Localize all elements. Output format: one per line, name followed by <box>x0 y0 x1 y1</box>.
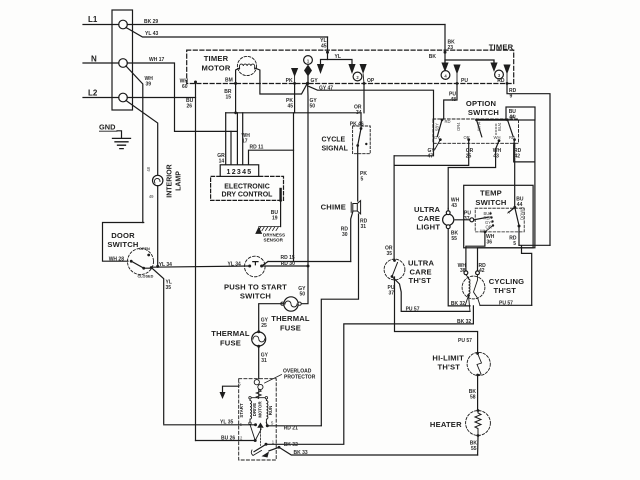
timer motor coil <box>240 64 255 69</box>
svg-text:OPTION: OPTION <box>466 99 496 108</box>
svg-text:31: 31 <box>361 224 367 230</box>
svg-text:48: 48 <box>450 97 456 103</box>
svg-text:15: 15 <box>225 95 231 101</box>
svg-text:YL 35: YL 35 <box>220 420 233 426</box>
svg-text:RD 15: RD 15 <box>281 255 295 261</box>
svg-text:YL 34: YL 34 <box>228 261 241 267</box>
svg-text:30: 30 <box>342 232 348 238</box>
svg-text:PU 57: PU 57 <box>406 307 420 313</box>
motor start winding <box>250 399 252 422</box>
svg-text:44: 44 <box>509 115 515 121</box>
wire GR14 pin1 <box>225 113 227 165</box>
contact RD triangle <box>503 65 510 75</box>
wire PK45 down <box>294 83 296 112</box>
svg-text:A: A <box>507 210 510 215</box>
svg-text:YL 34: YL 34 <box>159 262 172 268</box>
svg-text:17: 17 <box>242 139 248 145</box>
svg-text:34: 34 <box>356 110 362 116</box>
svg-text:BK 32: BK 32 <box>451 301 465 307</box>
option contact 4 <box>506 118 509 121</box>
dryness sensor <box>259 227 281 231</box>
wire branch to hi-limit <box>395 277 478 352</box>
temp blade <box>474 217 489 220</box>
svg-text:GY 47: GY 47 <box>319 85 333 91</box>
option bar link <box>477 119 508 121</box>
svg-text:SENSOR: SENSOR <box>264 238 284 243</box>
EDC dashed box <box>211 176 284 200</box>
svg-text:14: 14 <box>219 159 225 165</box>
wire GY50 down from junction <box>299 83 308 303</box>
node cluster y245 <box>519 245 550 305</box>
motor switch triangle <box>257 423 264 428</box>
wire heater bottom <box>477 437 479 455</box>
heater <box>466 411 491 436</box>
terminal L2 <box>119 93 128 102</box>
wire YL43 from L1 <box>126 28 328 38</box>
svg-text:42: 42 <box>479 268 485 274</box>
svg-text:RD 30: RD 30 <box>281 261 295 267</box>
svg-text:39: 39 <box>146 82 152 88</box>
svg-text:FUSE: FUSE <box>220 339 241 348</box>
svg-text:CARE: CARE <box>410 267 432 276</box>
svg-text:12345: 12345 <box>227 169 253 176</box>
node GY junction <box>306 82 309 85</box>
cam 4 circle <box>441 71 450 80</box>
wire GY31 down to motor <box>258 346 260 379</box>
svg-text:19: 19 <box>272 216 278 222</box>
svg-text:ELECTRONIC: ELECTRONIC <box>224 184 270 191</box>
push button symbol <box>253 262 258 265</box>
svg-text:TH'ST: TH'ST <box>409 276 432 285</box>
wire timer motor left lead BM <box>236 68 240 113</box>
svg-text:38: 38 <box>460 268 466 274</box>
svg-text:CARE: CARE <box>418 214 440 223</box>
svg-text:23: 23 <box>448 45 454 51</box>
door switch contacts <box>130 260 133 263</box>
wire bus y113 <box>226 112 361 114</box>
svg-text:DOWN: DOWN <box>520 207 525 220</box>
svg-text:47: 47 <box>428 154 434 160</box>
terminal block <box>112 10 133 110</box>
svg-text:55: 55 <box>471 446 477 452</box>
svg-text:GY: GY <box>434 135 440 140</box>
svg-text:THERMAL: THERMAL <box>211 329 250 338</box>
wire YL35 into motor pin6 <box>164 424 256 426</box>
wire YL34 to push-to-start <box>151 266 250 267</box>
svg-text:RUN: RUN <box>268 406 273 416</box>
svg-text:PU: PU <box>461 78 468 84</box>
wire BU19 sensor lead <box>279 189 281 200</box>
wire YL35 branch down to motor <box>151 268 164 424</box>
wire BU44 down to temp <box>514 143 516 207</box>
wire pin3 <box>236 113 238 165</box>
svg-text:60: 60 <box>182 84 188 90</box>
svg-text:TIMER: TIMER <box>489 43 514 52</box>
cycle signal dashed box <box>353 126 371 154</box>
svg-text:43: 43 <box>451 203 457 209</box>
wire WH39 diagonal from N <box>126 66 143 223</box>
svg-text:WH4: WH4 <box>477 121 482 131</box>
wire RD5 down <box>518 226 520 245</box>
temp switch box <box>464 185 533 248</box>
svg-text:55: 55 <box>451 236 457 242</box>
svg-text:RD: RD <box>509 135 515 140</box>
cam 2 circle <box>353 72 362 81</box>
wire BK58 <box>477 375 479 411</box>
svg-text:BK 33: BK 33 <box>294 450 308 456</box>
svg-text:ULTRA: ULTRA <box>414 205 440 214</box>
svg-text:5: 5 <box>361 177 364 183</box>
svg-text:9: 9 <box>510 94 513 100</box>
svg-text:PROTECTOR: PROTECTOR <box>284 375 316 381</box>
node OP <box>363 82 366 85</box>
svg-text:N: N <box>91 55 97 64</box>
wire L2 to lamp diagonal <box>126 101 158 176</box>
option contact 1 <box>441 118 444 121</box>
temp switch dashed box <box>475 208 524 232</box>
svg-text:L1: L1 <box>88 15 98 24</box>
svg-text:43: 43 <box>493 154 499 160</box>
svg-text:37: 37 <box>464 216 470 222</box>
wire WH17 from N <box>127 63 237 131</box>
svg-text:LIGHT: LIGHT <box>416 223 440 232</box>
ground <box>113 138 131 148</box>
svg-text:WH: WH <box>494 135 501 140</box>
wire chime bus <box>268 261 351 263</box>
timer dashed box <box>187 50 514 83</box>
svg-text:OR4: OR4 <box>456 122 461 131</box>
svg-text:42: 42 <box>515 154 521 160</box>
door switch arc <box>128 249 154 275</box>
wire BK29 drop + node <box>444 25 446 61</box>
thermal fuse right <box>284 297 298 311</box>
svg-text:35: 35 <box>166 285 172 291</box>
contact PK triangle <box>291 68 298 77</box>
svg-text:PU 57: PU 57 <box>499 301 513 307</box>
wire RD42 <box>478 140 535 271</box>
svg-text:BU 26: BU 26 <box>221 435 235 441</box>
svg-text:45: 45 <box>321 44 327 50</box>
svg-text:WH 28: WH 28 <box>109 256 125 262</box>
svg-text:5BY: 5BY <box>435 123 440 131</box>
wire PK5 down to chime <box>357 146 359 202</box>
ground arrow motor <box>223 386 239 392</box>
option contact 3 <box>498 139 501 142</box>
wire WH60 down joins BU26 <box>195 82 197 441</box>
wire GY47 diagonal from junction <box>309 86 434 156</box>
wire OR35 down to ultra care thst <box>393 156 395 261</box>
node lamp-YL34 junction <box>156 265 159 268</box>
motor run winding <box>266 399 268 422</box>
svg-text:WH 17: WH 17 <box>149 57 165 63</box>
node BK33 branch <box>278 446 281 449</box>
svg-text:SWITCH: SWITCH <box>468 108 499 117</box>
timer cam 1 circle <box>304 56 313 65</box>
cam 4 triangle <box>441 63 448 73</box>
svg-text:TH'ST: TH'ST <box>494 286 517 295</box>
ultra care light <box>443 214 454 225</box>
motor dashed box <box>239 379 277 460</box>
wire pin4 <box>242 113 244 165</box>
svg-text:SWITCH: SWITCH <box>240 292 271 301</box>
svg-text:SWITCH: SWITCH <box>107 240 138 249</box>
wire PU57 right <box>480 304 532 306</box>
wire OR34 down <box>363 83 365 112</box>
interior lamp <box>153 175 163 185</box>
svg-text:35: 35 <box>386 251 392 257</box>
wire WH36 <box>466 232 485 271</box>
node WH60 <box>194 81 197 84</box>
svg-text:45: 45 <box>287 104 293 110</box>
svg-text:CHIME: CHIME <box>321 203 346 212</box>
BU44 box <box>506 107 535 120</box>
node RD30-GY50 junction <box>307 265 310 268</box>
svg-text:BK 32: BK 32 <box>284 442 298 448</box>
cycle signal blade <box>358 129 361 146</box>
ultra care thst <box>384 259 405 280</box>
svg-text:31: 31 <box>261 358 267 364</box>
push to start switch dashed circle <box>245 256 266 277</box>
svg-text:OPEN: OPEN <box>139 247 150 251</box>
chime symbol <box>351 201 360 214</box>
wire RD9 to right side <box>507 83 550 245</box>
svg-text:YL 43: YL 43 <box>145 31 158 37</box>
svg-text:RD 21: RD 21 <box>284 425 298 431</box>
wire GY26 link fuses <box>259 304 284 332</box>
hi-limit thst <box>467 352 490 375</box>
svg-text:PK 46: PK 46 <box>350 121 364 127</box>
wire RD21 <box>267 425 321 427</box>
svg-text:48: 48 <box>146 166 151 171</box>
svg-text:BK 29: BK 29 <box>144 19 158 25</box>
svg-text:FUSE: FUSE <box>280 324 301 333</box>
svg-text:CYCLING: CYCLING <box>489 277 525 286</box>
svg-text:MOTOR: MOTOR <box>201 64 230 73</box>
wire lamp to door switch node <box>157 186 159 267</box>
motor switch blade <box>250 425 261 441</box>
svg-text:YL: YL <box>335 54 341 60</box>
wire timer motor right lead <box>255 68 307 94</box>
overload protector <box>254 380 259 385</box>
svg-text:OR: OR <box>464 135 470 140</box>
wire light down BK <box>448 209 470 306</box>
svg-text:DRY CONTROL: DRY CONTROL <box>222 191 274 198</box>
svg-text:26: 26 <box>187 104 193 110</box>
wire BK29 from L1 across top <box>127 24 445 26</box>
cycling thst <box>462 276 485 299</box>
svg-text:CLOSED: CLOSED <box>138 275 154 279</box>
svg-text:TIMER: TIMER <box>204 54 229 63</box>
wire RD11 pin5 <box>249 150 294 165</box>
terminal L1 <box>119 20 128 29</box>
wire N lead <box>83 62 119 64</box>
svg-text:50: 50 <box>310 104 316 110</box>
svg-text:PK: PK <box>286 78 293 84</box>
wire L2 lead <box>83 97 119 99</box>
wire YL45 down into timer <box>327 37 329 60</box>
wire L1 lead <box>83 24 119 26</box>
temp common <box>470 218 474 222</box>
svg-text:MOTOR: MOTOR <box>257 401 262 418</box>
option switch dashed box <box>433 119 519 143</box>
svg-text:WH: WH <box>480 229 487 234</box>
cam 4-3 bracket <box>445 60 494 64</box>
svg-text:37: 37 <box>388 291 394 297</box>
svg-text:THERMAL: THERMAL <box>271 314 310 323</box>
svg-text:LAMP: LAMP <box>176 171 183 191</box>
wire WH43 <box>448 141 499 209</box>
door switch blade <box>131 261 151 268</box>
svg-text:ULTRA: ULTRA <box>408 259 434 268</box>
svg-text:BM: BM <box>225 78 233 84</box>
svg-text:25: 25 <box>466 154 472 160</box>
svg-text:RD 11: RD 11 <box>250 145 264 151</box>
wire BU26 into motor pin2 <box>196 440 256 442</box>
svg-text:BK 32: BK 32 <box>457 319 471 325</box>
motor bottom contact <box>262 452 270 458</box>
node BM <box>234 82 237 85</box>
svg-text:SWITCH: SWITCH <box>475 198 506 207</box>
contact PU triangle <box>453 65 460 75</box>
node bus BR15 <box>234 111 237 114</box>
wire RD31 chime right leg <box>321 214 358 426</box>
wire RD15/RD30 pts links <box>262 262 308 267</box>
svg-text:TEMP: TEMP <box>480 189 502 198</box>
wire BK33 <box>269 447 478 455</box>
cam 3 circle <box>495 70 504 79</box>
svg-text:HI-LIMIT: HI-LIMIT <box>432 354 464 363</box>
svg-text:58: 58 <box>470 395 476 401</box>
temp pivot <box>513 206 516 209</box>
svg-text:PUSH TO START: PUSH TO START <box>224 283 287 292</box>
svg-text:RD: RD <box>497 78 505 84</box>
svg-text:PU 57: PU 57 <box>458 338 472 344</box>
motor pin1 <box>265 443 268 446</box>
timer motor circle <box>237 56 256 75</box>
wire PU37/PU57 <box>392 277 470 312</box>
svg-text:SIGNAL: SIGNAL <box>322 146 349 153</box>
wire hi-limit top joint <box>477 352 479 354</box>
svg-text:RD: RD <box>445 119 451 124</box>
svg-text:CYCLE: CYCLE <box>322 137 346 144</box>
gnd underline <box>99 130 118 132</box>
svg-text:GND: GND <box>99 123 116 132</box>
wire BK32 from pin1 <box>266 306 473 444</box>
svg-text:GY: GY <box>311 78 319 84</box>
door switch box <box>103 223 144 262</box>
svg-text:TH'ST: TH'ST <box>438 363 461 372</box>
svg-text:OP: OP <box>367 78 375 84</box>
svg-text:INTERIOR: INTERIOR <box>167 164 174 197</box>
cam 2 bracket <box>321 60 353 65</box>
wire PU48 down to option <box>444 83 457 119</box>
wire BU26 from L2 <box>127 97 195 99</box>
wire RD30 chime left leg <box>351 211 353 262</box>
wire RD11 PK vertical continues <box>293 113 295 262</box>
ground lead <box>117 131 122 138</box>
wire OR25 <box>394 140 469 166</box>
wire WH17 pin2 <box>230 131 232 164</box>
svg-text:L2: L2 <box>88 89 98 98</box>
terminal N <box>119 59 128 68</box>
overload pointer <box>265 375 282 384</box>
wire into cycle signal <box>360 113 362 129</box>
temp contact cluster <box>489 212 491 214</box>
cam 3 triangle <box>490 63 497 73</box>
svg-text:HEATER: HEATER <box>430 420 462 429</box>
svg-text:49: 49 <box>149 194 154 199</box>
svg-text:50: 50 <box>299 292 305 298</box>
thermal fuse left <box>252 332 266 346</box>
svg-text:36: 36 <box>487 240 493 246</box>
option contact 2 <box>475 118 478 121</box>
svg-text:BU4: BU4 <box>497 122 502 131</box>
svg-text:DOOR: DOOR <box>111 231 135 240</box>
motor pin5 <box>266 424 269 427</box>
svg-text:DRIVE: DRIVE <box>252 403 257 416</box>
cam 2 triangles <box>317 64 324 74</box>
EDC connector <box>220 165 259 177</box>
svg-text:25: 25 <box>261 323 267 329</box>
cam 1 diamond <box>304 65 312 77</box>
wire BU44 box edge down <box>534 120 536 162</box>
svg-text:5: 5 <box>513 241 516 247</box>
svg-text:START: START <box>239 403 244 418</box>
svg-text:BK: BK <box>429 54 437 60</box>
